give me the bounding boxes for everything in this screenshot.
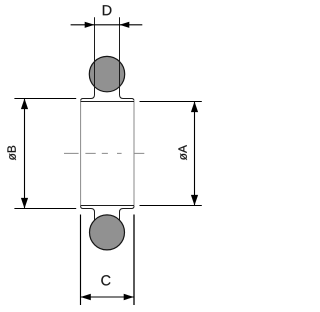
dimension C label bbox=[101, 275, 110, 285]
centerline (dashed axis) bbox=[64, 152, 144, 154]
dimension D left arrow bbox=[85, 22, 95, 28]
D extension line / neck left bbox=[91, 17, 95, 98]
dimension A bottom arrow bbox=[191, 195, 198, 206]
body bottom-right edge bbox=[123, 206, 134, 208]
D extension line / neck right bbox=[120, 17, 124, 98]
body bottom-left edge bbox=[81, 206, 92, 208]
dimension D right arrow bbox=[120, 22, 130, 28]
dimension B label bbox=[7, 146, 15, 160]
bottom O-ring cross-section bbox=[90, 215, 125, 250]
body right vertical bbox=[133, 100, 135, 207]
dimension A label bbox=[178, 145, 186, 160]
bottom neck right bbox=[120, 209, 124, 222]
body top-left edge bbox=[81, 99, 92, 101]
dimension B line bbox=[24, 99, 26, 209]
dimension C line bbox=[81, 296, 135, 298]
dimension B top arrow bbox=[21, 99, 28, 110]
dimension C left arrow bbox=[81, 294, 91, 300]
dimension D label bbox=[103, 5, 112, 15]
dimension B bottom arrow bbox=[21, 198, 28, 209]
dimension B bottom extension line bbox=[14, 208, 76, 210]
dimension C right extension line bbox=[133, 215, 135, 306]
body inner top line bbox=[81, 101, 134, 103]
body left vertical bbox=[80, 100, 82, 207]
body top-right edge bbox=[123, 99, 134, 101]
dimension C left extension line bbox=[80, 215, 82, 306]
dimension A line bbox=[194, 102, 196, 206]
top O-ring cross-section bbox=[89, 56, 124, 91]
dimension C right arrow bbox=[124, 294, 134, 300]
body inner bottom line bbox=[81, 205, 134, 207]
dimension B top extension line bbox=[14, 98, 76, 100]
dimension A top extension line bbox=[140, 101, 202, 103]
dimension A bottom extension line bbox=[140, 205, 202, 207]
bottom neck left bbox=[91, 209, 95, 222]
dimension D line bbox=[71, 24, 143, 26]
dimension A top arrow bbox=[191, 102, 198, 113]
